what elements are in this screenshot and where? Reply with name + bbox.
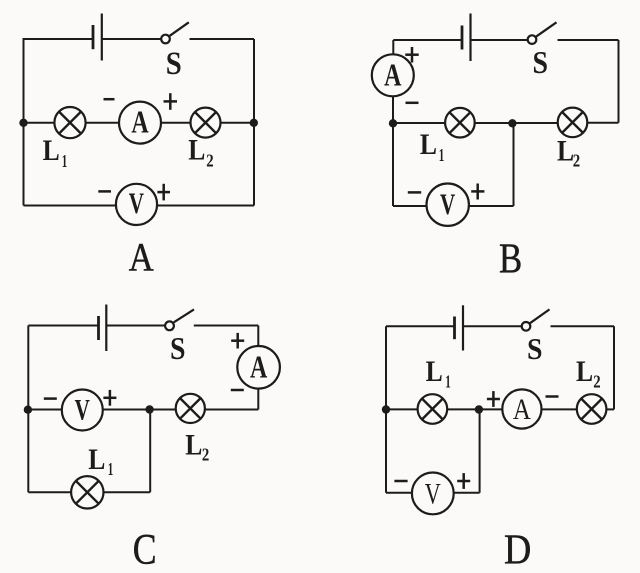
minus label (voltmeter V, circuit B) (408, 191, 421, 194)
wire: A right vertical (253, 39, 255, 206)
minus label (voltmeter V, circuit C) (44, 397, 57, 400)
minus label (ammeter A, circuit C) (231, 389, 244, 392)
wire: C battery to switch (106, 325, 165, 327)
wire: C right vertical top (corner to ammeter) (257, 326, 259, 347)
lamp L1 (circuit C) (71, 476, 103, 508)
wire: B battery to switch (471, 39, 528, 41)
lamp L2 (circuit A) (191, 108, 221, 138)
minus label (ammeter A, circuit A) (104, 98, 115, 101)
wire: D battery to switch (463, 325, 522, 327)
wire: D lower-loop bottom left (386, 492, 412, 494)
battery (circuit B) (462, 14, 471, 62)
switch S (circuit A) (161, 22, 189, 43)
wire: B node to L1 (393, 122, 445, 124)
wire: D left vertical (385, 326, 387, 493)
label L2 (circuit C) (185, 429, 209, 465)
label L1 (circuit C) (88, 443, 113, 479)
label L2 (circuit D) (576, 355, 601, 392)
lamp L1 (circuit D) (418, 394, 448, 424)
switch S (circuit C) (165, 309, 194, 330)
wire: D right vertical (613, 326, 615, 409)
wire: B lower-loop right vertical (513, 123, 515, 206)
svg-text:S: S (170, 330, 186, 366)
lamp L2 (circuit C) (176, 394, 205, 423)
lamp L1 (circuit B) (445, 108, 475, 138)
svg-text:A: A (513, 393, 531, 426)
wire: C right vertical bottom (ammeter to middle wire) (257, 389, 259, 410)
switch S (circuit B) (528, 22, 557, 44)
switch S (circuit D) (522, 309, 550, 330)
label L2 (circuit A) (188, 134, 214, 171)
svg-text:L: L (188, 134, 205, 167)
battery (circuit D) (455, 305, 464, 350)
svg-text:L: L (88, 443, 105, 476)
plus label (ammeter A, circuit C) (231, 333, 244, 349)
svg-text:2: 2 (593, 372, 600, 392)
plus label (ammeter A, circuit A) (164, 93, 178, 110)
wire: A node to L1 (24, 122, 55, 124)
svg-text:A: A (129, 235, 154, 280)
ammeter A (circuit B) (372, 54, 414, 96)
svg-text:L: L (43, 134, 60, 167)
wire: A ammeter to L2 (161, 122, 191, 124)
label L1 (circuit D) (426, 355, 451, 392)
voltmeter V (circuit A) (116, 184, 157, 225)
minus label (ammeter A, circuit D) (546, 395, 559, 398)
wire: D lower-loop right vertical (479, 409, 481, 492)
wire: D voltmeter to lower-loop right corner (454, 492, 480, 494)
svg-text:V: V (425, 477, 441, 510)
node: C middle junction (145, 405, 153, 413)
wire: C L1 to lower-loop right corner (103, 491, 150, 493)
ammeter A (circuit A) (119, 102, 161, 144)
wire: D L2 to right corner (606, 408, 614, 410)
wire: A battery to switch (102, 38, 162, 40)
plus label (voltmeter V, circuit B) (471, 184, 484, 200)
wire: B L1 to L2 with middle node (475, 122, 558, 124)
voltmeter V (circuit C) (62, 390, 103, 431)
wire: B voltmeter to lower-loop right corner (469, 205, 514, 207)
label L1 (circuit A) (43, 134, 68, 171)
svg-text:S: S (166, 46, 182, 82)
wire: D ammeter to L2 (542, 408, 577, 410)
svg-text:A: A (131, 105, 148, 140)
svg-text:V: V (75, 395, 90, 427)
svg-text:S: S (527, 331, 543, 366)
svg-text:A: A (384, 58, 401, 93)
wire: B top-left segment (393, 39, 462, 41)
wire: D L1 to ammeter (447, 408, 502, 410)
wire: C lower-loop bottom left (28, 491, 72, 493)
svg-text:1: 1 (439, 145, 445, 165)
plus label (ammeter A, circuit D) (487, 391, 500, 407)
wire: A switch to top-right corner (190, 38, 255, 40)
minus label (voltmeter V, circuit D) (394, 480, 407, 483)
voltmeter V (circuit B) (427, 184, 469, 226)
svg-text:L: L (426, 355, 443, 388)
svg-text:2: 2 (573, 151, 580, 171)
battery (circuit C) (99, 305, 107, 352)
node: D left junction (382, 405, 390, 413)
wire: B switch to top-right corner (558, 39, 619, 41)
node: B middle junction (508, 119, 516, 127)
wire: D top-left segment (386, 325, 455, 327)
minus label (ammeter A, circuit B) (406, 102, 419, 105)
wire: B left vertical top (corner to ammeter) (392, 40, 394, 55)
wire: D node to L1 (386, 408, 418, 410)
node: A right junction (250, 119, 258, 127)
svg-text:V: V (129, 188, 144, 220)
svg-text:1: 1 (445, 372, 451, 392)
node: C left junction (24, 406, 32, 414)
svg-text:L: L (185, 429, 202, 462)
plus label (voltmeter V, circuit A) (157, 184, 170, 201)
node: A left junction (19, 119, 27, 127)
wire: C L2 to right vertical (205, 409, 258, 411)
svg-text:B: B (499, 235, 522, 282)
wire: C lower-loop right vertical (149, 410, 151, 493)
svg-text:L: L (420, 128, 437, 161)
plus label (voltmeter V, circuit D) (457, 473, 470, 489)
wire: B lower-loop bottom left (393, 205, 427, 207)
wire: A voltmeter to bottom-right (157, 205, 254, 207)
wire: C left vertical (27, 326, 29, 493)
lamp L2 (circuit D) (577, 394, 607, 424)
wire: A left vertical (23, 39, 25, 206)
wire: A L1 to ammeter (86, 122, 119, 124)
svg-text:A: A (250, 350, 267, 385)
lamp L2 (circuit B) (558, 108, 588, 138)
plus label (ammeter A, circuit B) (405, 47, 418, 63)
minus label (voltmeter V, circuit A) (98, 190, 111, 193)
wire: A L2 to right node (221, 122, 254, 124)
wire: A bottom-left to voltmeter (24, 205, 117, 207)
svg-text:1: 1 (62, 151, 68, 171)
wire: B left vertical bottom (ammeter to lower loop) (392, 96, 394, 206)
plus label (voltmeter V, circuit C) (103, 390, 116, 406)
ammeter A (circuit C) (237, 346, 280, 389)
svg-text:2: 2 (202, 445, 209, 465)
svg-text:L: L (576, 355, 593, 388)
svg-text:1: 1 (108, 459, 114, 479)
wire: B L2 to right corner (587, 122, 618, 124)
node: B left junction (389, 119, 397, 127)
svg-text:L: L (557, 134, 574, 167)
svg-text:V: V (440, 189, 455, 221)
battery (circuit A) (93, 14, 102, 61)
svg-text:C: C (133, 527, 157, 573)
wire: B right vertical (618, 40, 620, 123)
wire: C voltmeter to L2 (103, 409, 176, 411)
lamp L1 (circuit A) (54, 107, 85, 138)
svg-text:D: D (504, 527, 531, 573)
voltmeter V (circuit D) (412, 473, 454, 515)
wire: C node to voltmeter (28, 409, 62, 411)
label L1 (circuit B) (420, 128, 444, 165)
svg-text:S: S (532, 44, 548, 80)
wire: A top-left segment (23, 38, 94, 40)
wire: C top-left segment (28, 325, 98, 327)
node: D middle junction (475, 405, 483, 413)
label L2 (circuit B) (557, 134, 580, 170)
wire: C switch to top-right corner (194, 325, 258, 327)
ammeter A (circuit D) (502, 389, 541, 428)
svg-text:2: 2 (206, 151, 213, 171)
wire: D switch to top-right corner (551, 325, 615, 327)
